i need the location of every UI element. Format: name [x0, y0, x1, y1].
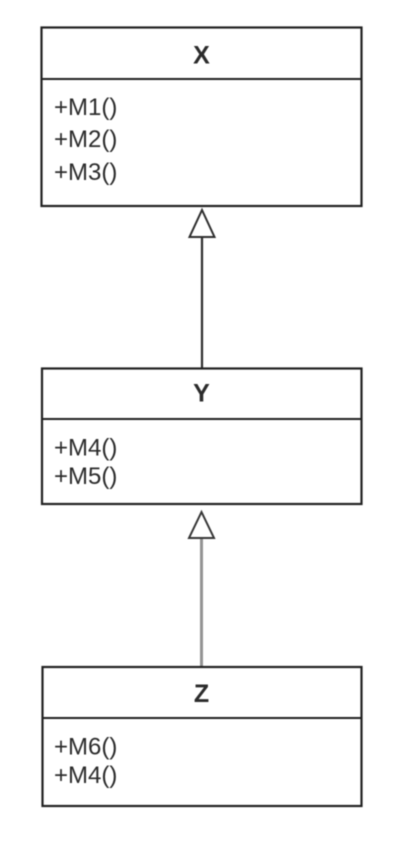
- class box Z: [43, 667, 362, 806]
- wire: inheritance line Z to triangle below Y (gray): [200, 539, 203, 668]
- divider of class X: [42, 78, 362, 80]
- arrowhead: hollow triangle pointing to Y: [189, 512, 214, 538]
- class box X: [42, 28, 362, 207]
- wire: inheritance line Y to triangle below X: [201, 237, 203, 369]
- svg-text:+M1(): +M1(): [54, 94, 117, 121]
- svg-text:+M4(): +M4(): [54, 762, 117, 789]
- svg-text:Z: Z: [194, 680, 209, 708]
- svg-text:+M5(): +M5(): [54, 463, 117, 490]
- arrowhead: hollow triangle pointing to X: [190, 210, 215, 237]
- svg-text:X: X: [193, 42, 210, 70]
- svg-text:+M3(): +M3(): [54, 159, 117, 186]
- class box Y: [42, 369, 362, 505]
- svg-text:+M4(): +M4(): [54, 435, 117, 462]
- svg-text:+M2(): +M2(): [54, 126, 117, 153]
- divider of class Z: [43, 717, 362, 719]
- svg-text:Y: Y: [193, 380, 210, 408]
- svg-text:+M6(): +M6(): [54, 734, 117, 761]
- divider of class Y: [42, 418, 362, 420]
